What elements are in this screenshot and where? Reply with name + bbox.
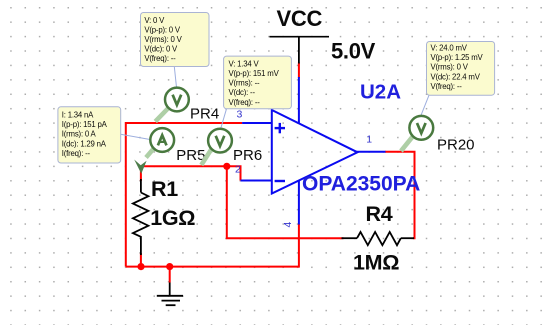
wire: inverting node horizontal <box>141 166 241 180</box>
wire: bottom ground net horizontal <box>126 266 299 268</box>
svg-text:3: 3 <box>237 109 243 121</box>
svg-text:PR20: PR20 <box>437 137 475 154</box>
leader line box1 to PR4 <box>174 67 176 88</box>
probe PR4 <box>155 88 189 122</box>
svg-text:V(freq): --: V(freq): -- <box>431 82 463 91</box>
svg-text:V: 24.0 mV: V: 24.0 mV <box>431 44 468 53</box>
op-amp pin 4 stub <box>298 180 300 224</box>
svg-text:OPA2350PA: OPA2350PA <box>302 173 420 196</box>
probe readout box PR20 <box>427 42 495 96</box>
probe PR6 <box>201 129 232 165</box>
svg-text:I(freq): --: I(freq): -- <box>62 149 91 158</box>
wire: output to R4 <box>385 152 415 238</box>
svg-text:V: 1.34 V: V: 1.34 V <box>229 59 260 68</box>
wire: VCC red segment <box>298 63 300 79</box>
op-amp top power stub <box>298 77 300 124</box>
wire: R1 bottom red stub <box>140 253 142 268</box>
probe readout box PR6 <box>224 56 292 109</box>
wire: ground red stub <box>169 267 171 283</box>
svg-text:R4: R4 <box>366 202 393 226</box>
svg-text:I(rms): 0 A: I(rms): 0 A <box>62 130 97 139</box>
probe PR5 <box>134 128 174 174</box>
op-amp U2A triangle <box>272 110 358 194</box>
ground symbol <box>157 283 183 306</box>
svg-text:PR6: PR6 <box>233 147 262 164</box>
svg-text:V(freq): --: V(freq): -- <box>144 54 176 63</box>
svg-text:R1: R1 <box>151 177 178 201</box>
svg-text:V(p-p): 151 mV: V(p-p): 151 mV <box>229 69 280 78</box>
svg-text:1GΩ: 1GΩ <box>150 206 195 230</box>
svg-text:V(rms): --: V(rms): -- <box>229 79 261 88</box>
leader line box3 to PR5 <box>121 134 150 139</box>
probe readout box PR5 <box>58 107 121 163</box>
power VCC symbol <box>270 37 330 64</box>
op-amp pin 3 stub <box>242 122 271 124</box>
wire: R1 top red stub <box>140 165 142 181</box>
svg-text:I(dc): 1.29 nA: I(dc): 1.29 nA <box>62 139 107 148</box>
resistor R4 <box>342 232 415 245</box>
junction dot inverting node <box>223 163 230 170</box>
wire: pin3 net top horizontal <box>126 123 242 267</box>
svg-text:5.0V: 5.0V <box>331 38 376 63</box>
junction dot ground <box>166 263 173 270</box>
probe readout box PR4 <box>141 13 210 67</box>
op-amp pin 2 stub <box>241 180 272 182</box>
svg-text:V(dc): 0 V: V(dc): 0 V <box>144 45 178 54</box>
svg-text:V: 0 V: V: 0 V <box>144 16 165 25</box>
svg-text:V(dc): --: V(dc): -- <box>229 88 256 97</box>
probe PR20 <box>401 116 433 151</box>
svg-text:PR4: PR4 <box>190 106 219 123</box>
svg-text:1: 1 <box>366 133 372 145</box>
svg-text:VCC: VCC <box>277 6 323 31</box>
svg-text:4: 4 <box>282 222 294 228</box>
leader line box4 to PR20 <box>421 95 429 115</box>
svg-text:V(dc): 22.4 mV: V(dc): 22.4 mV <box>431 72 481 81</box>
svg-text:V(p-p): 1.25 mV: V(p-p): 1.25 mV <box>431 53 484 62</box>
wire: feedback vertical from inverting node <box>227 166 344 238</box>
svg-text:2: 2 <box>235 163 241 175</box>
svg-text:V(freq): --: V(freq): -- <box>229 98 261 107</box>
svg-text:U2A: U2A <box>360 81 401 104</box>
wire: pin4 red segment <box>298 224 300 268</box>
leader line box2 to PR6 <box>221 109 227 129</box>
svg-text:V(p-p): 0 V: V(p-p): 0 V <box>144 25 180 34</box>
svg-text:I(p-p): 151 pA: I(p-p): 151 pA <box>62 120 108 129</box>
svg-text:I: 1.34 nA: I: 1.34 nA <box>62 111 94 120</box>
junction dot left <box>137 263 144 270</box>
svg-text:V(rms): 0 V: V(rms): 0 V <box>431 63 469 72</box>
svg-text:V(rms): 0 V: V(rms): 0 V <box>144 35 182 44</box>
svg-text:1MΩ: 1MΩ <box>353 251 399 275</box>
resistor R1 <box>133 179 149 255</box>
op-amp pin 1 output stub <box>357 151 386 153</box>
